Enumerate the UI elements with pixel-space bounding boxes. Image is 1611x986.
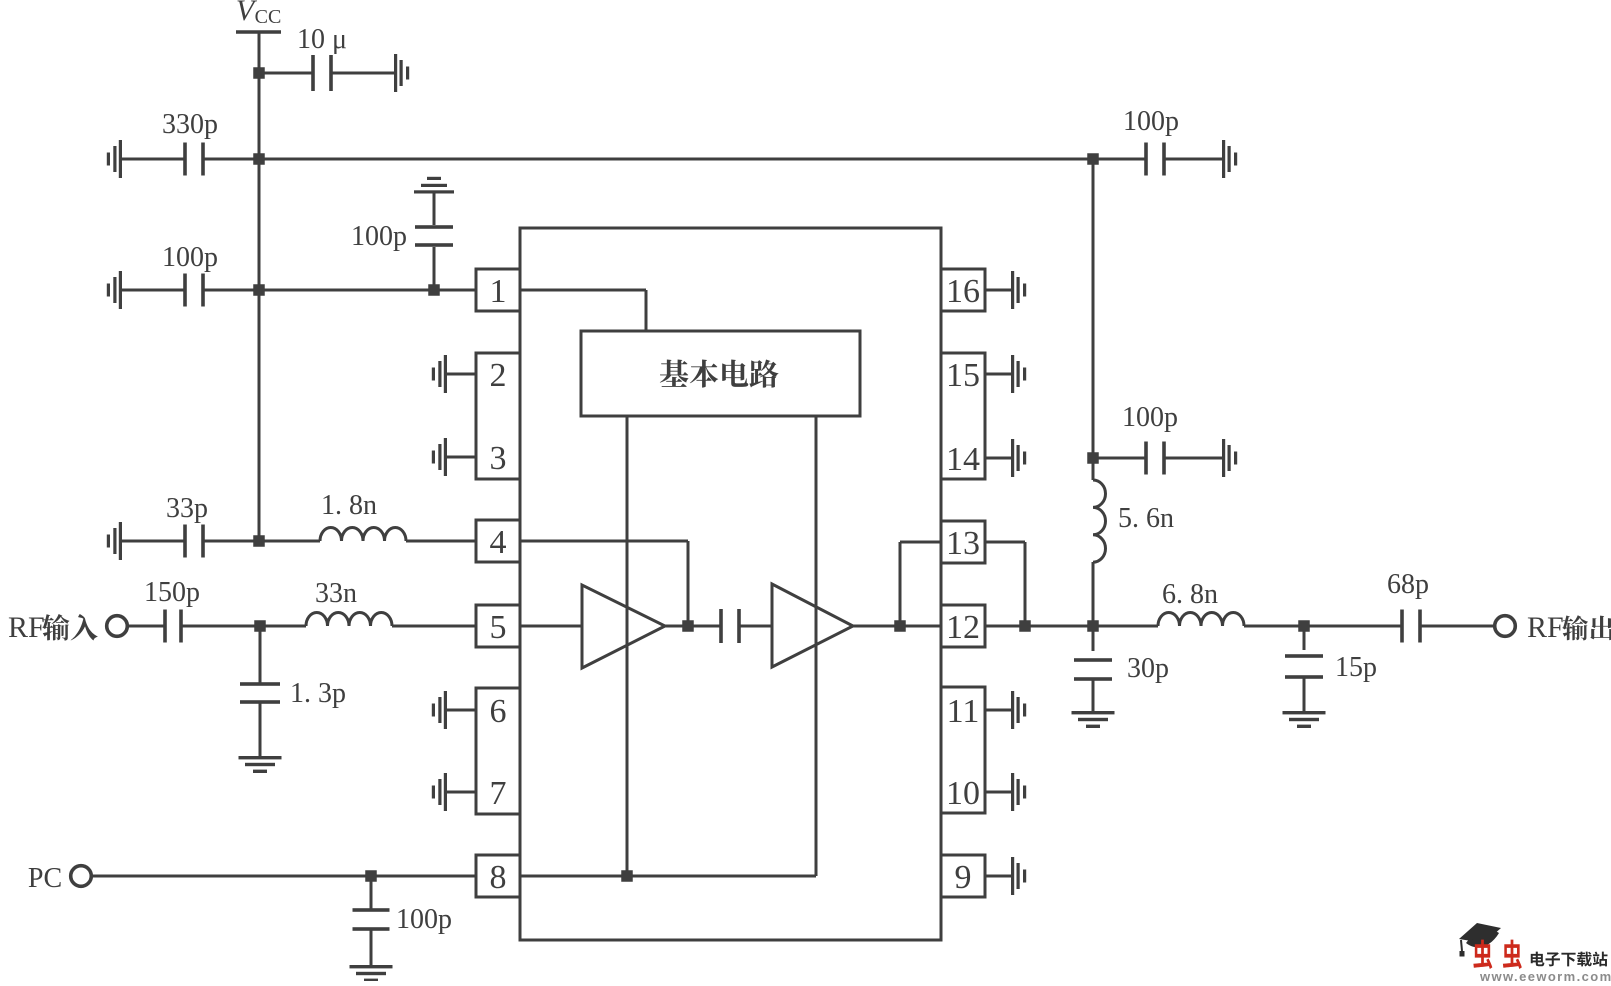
svg-text:RF: RF bbox=[8, 611, 45, 644]
svg-text:33n: 33n bbox=[315, 578, 357, 609]
svg-text:68p: 68p bbox=[1387, 569, 1429, 600]
svg-text:1. 3p: 1. 3p bbox=[290, 678, 346, 709]
svg-text:PC: PC bbox=[28, 863, 62, 894]
svg-text:33p: 33p bbox=[166, 493, 208, 524]
svg-text:15p: 15p bbox=[1335, 652, 1377, 683]
svg-text:330p: 330p bbox=[162, 109, 218, 140]
svg-text:RF: RF bbox=[1527, 611, 1564, 644]
svg-text:CC: CC bbox=[255, 6, 282, 28]
svg-text:100p: 100p bbox=[1122, 402, 1178, 433]
svg-text:9: 9 bbox=[955, 859, 972, 896]
svg-text:2: 2 bbox=[490, 357, 507, 394]
svg-text:11: 11 bbox=[947, 693, 980, 730]
svg-text:150p: 150p bbox=[144, 577, 200, 608]
svg-text:100p: 100p bbox=[351, 221, 407, 252]
svg-text:12: 12 bbox=[946, 609, 980, 646]
svg-text:6. 8n: 6. 8n bbox=[1162, 579, 1218, 610]
svg-text:4: 4 bbox=[490, 524, 507, 561]
svg-text:10 μ: 10 μ bbox=[297, 24, 347, 55]
svg-text:15: 15 bbox=[946, 357, 980, 394]
svg-text:100p: 100p bbox=[1123, 106, 1179, 137]
svg-text:10: 10 bbox=[946, 775, 980, 812]
svg-text:www.eeworm.com: www.eeworm.com bbox=[1479, 969, 1611, 981]
svg-text:1: 1 bbox=[490, 273, 507, 310]
svg-text:5. 6n: 5. 6n bbox=[1118, 503, 1174, 534]
svg-text:13: 13 bbox=[946, 525, 980, 562]
svg-text:30p: 30p bbox=[1127, 653, 1169, 684]
svg-text:16: 16 bbox=[946, 273, 980, 310]
svg-text:100p: 100p bbox=[396, 904, 452, 935]
svg-text:3: 3 bbox=[490, 440, 507, 477]
svg-text:1. 8n: 1. 8n bbox=[321, 490, 377, 521]
svg-text:6: 6 bbox=[490, 693, 507, 730]
svg-text:100p: 100p bbox=[162, 242, 218, 273]
svg-text:8: 8 bbox=[490, 859, 507, 896]
svg-text:14: 14 bbox=[946, 441, 980, 478]
svg-text:5: 5 bbox=[490, 609, 507, 646]
svg-text:7: 7 bbox=[490, 775, 507, 812]
